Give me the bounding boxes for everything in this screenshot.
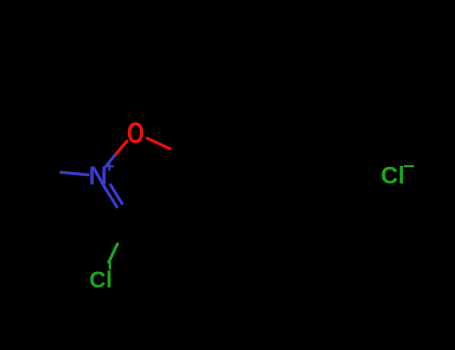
svg-text:Cl: Cl	[89, 266, 112, 292]
svg-text:N: N	[89, 160, 108, 190]
svg-text:O: O	[127, 116, 144, 150]
svg-text:Cl: Cl	[381, 163, 405, 190]
